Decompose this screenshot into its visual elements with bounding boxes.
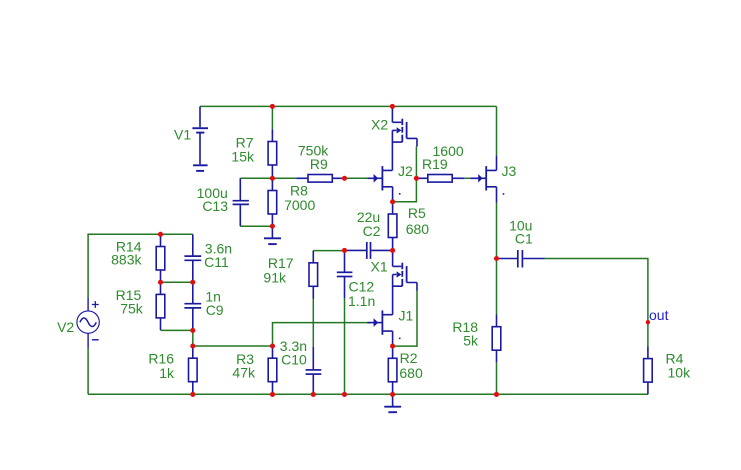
- wire R14 C11 row: [161, 281, 193, 283]
- wire X2 gate down: [415, 147, 417, 179]
- svg-text:C11: C11: [204, 254, 229, 270]
- svg-text:5k: 5k: [463, 332, 479, 348]
- capacitor C13: [233, 178, 249, 226]
- transistor X2: [392, 106, 417, 146]
- node R3 top: [270, 343, 275, 348]
- wire J3 drain feed: [496, 106, 498, 155]
- capacitor C9: [184, 282, 201, 330]
- node out: [646, 320, 650, 324]
- node R8 gnd: [270, 224, 275, 229]
- svg-text:883k: 883k: [111, 252, 142, 268]
- wire R9 left: [272, 177, 296, 179]
- wire J3 source down: [496, 203, 498, 315]
- capacitor C1: [497, 250, 545, 268]
- svg-text:C2: C2: [363, 223, 381, 239]
- svg-text:75k: 75k: [120, 301, 144, 317]
- svg-text:10k: 10k: [668, 365, 692, 381]
- node R7/R8/R9: [270, 176, 275, 181]
- svg-text:91k: 91k: [263, 269, 287, 285]
- capacitor C10: [306, 347, 322, 394]
- svg-text:out: out: [649, 307, 669, 323]
- wire J1 gate: [273, 323, 371, 346]
- wire V2 bottom: [87, 348, 89, 394]
- node C11/C9: [190, 280, 195, 285]
- svg-text:R9: R9: [310, 156, 328, 172]
- wire R16 R3 row: [193, 345, 273, 347]
- node J1 source/R2: [390, 344, 395, 349]
- node rail C10: [311, 392, 316, 397]
- node rail R2/gnd: [390, 392, 395, 397]
- transistor J3: [470, 155, 496, 202]
- node rail C12: [342, 392, 347, 397]
- svg-text:J1: J1: [399, 308, 414, 324]
- svg-text:R2: R2: [400, 350, 418, 366]
- node V2/R14: [158, 232, 163, 237]
- svg-text:J3: J3: [502, 163, 517, 179]
- svg-text:47k: 47k: [232, 364, 256, 380]
- svg-text:V1: V1: [174, 127, 191, 143]
- svg-text:15k: 15k: [231, 149, 255, 165]
- voltage source V2: [77, 298, 99, 349]
- resistor R7: [268, 129, 277, 177]
- resistor R16: [189, 346, 198, 394]
- node R19/X2 gate: [414, 176, 419, 181]
- svg-text:680: 680: [406, 221, 430, 237]
- capacitor C12: [337, 250, 353, 298]
- wire R15 bottom link: [161, 329, 193, 331]
- resistor R14: [156, 234, 165, 282]
- ground at R2: [384, 394, 401, 412]
- node rail R18: [494, 392, 499, 397]
- resistor R18: [492, 315, 501, 363]
- wire C9 node down: [192, 330, 194, 346]
- node rail R16: [190, 392, 195, 397]
- resistor R3: [268, 346, 277, 394]
- wire C13 bottom: [240, 225, 272, 227]
- svg-text:X1: X1: [371, 259, 388, 275]
- pin mark J2: [399, 193, 401, 195]
- resistor R19: [416, 175, 464, 183]
- voltage source V1: [192, 106, 208, 170]
- svg-text:R5: R5: [408, 205, 426, 221]
- node R15/C9: [190, 328, 195, 333]
- resistor R2: [388, 346, 397, 394]
- resistor R17: [309, 251, 318, 299]
- wire C12 bottom: [344, 298, 346, 394]
- resistor R8: [268, 178, 277, 226]
- svg-text:J2: J2: [398, 163, 413, 179]
- svg-text:R16: R16: [148, 350, 174, 366]
- svg-text:C10: C10: [281, 352, 307, 368]
- svg-text:X2: X2: [371, 117, 388, 133]
- wire bottom rail: [88, 393, 648, 395]
- resistor R5: [388, 202, 397, 250]
- wire top rail V+: [200, 105, 497, 107]
- node R9/J2 gate: [342, 176, 347, 181]
- svg-text:V2: V2: [57, 319, 74, 335]
- transistor J2: [367, 142, 392, 202]
- pin mark J1: [399, 338, 401, 340]
- wire V2 top to C11: [88, 234, 193, 297]
- node R14/R15: [158, 280, 163, 285]
- svg-text:7000: 7000: [284, 197, 315, 213]
- node V+ / X2: [390, 104, 395, 109]
- wire J2 gate: [345, 177, 368, 179]
- resistor R9: [296, 175, 344, 183]
- svg-text:R19: R19: [422, 156, 448, 172]
- capacitor C11: [184, 234, 201, 282]
- svg-text:C13: C13: [202, 198, 228, 214]
- wire R7 top: [271, 106, 273, 129]
- node R16 top: [190, 343, 195, 348]
- wire C1 right to out column: [545, 259, 648, 347]
- node J2 source/R5: [390, 199, 395, 204]
- svg-text:680: 680: [399, 365, 423, 381]
- resistor R4: [644, 346, 653, 394]
- wire X1 gate down: [393, 291, 417, 347]
- transistor X1: [393, 250, 417, 290]
- svg-text:C9: C9: [206, 302, 224, 318]
- svg-text:C1: C1: [515, 231, 533, 247]
- node C2 right: [390, 248, 395, 253]
- wire node J2 source to R19 node: [393, 178, 417, 202]
- svg-text:1.1n: 1.1n: [348, 293, 375, 309]
- transistor J1: [367, 286, 392, 346]
- node C2 left: [342, 248, 347, 253]
- resistor R15: [156, 282, 165, 330]
- wire R19 right: [464, 177, 470, 179]
- wire R18 bottom: [496, 363, 498, 395]
- node V+ / R7: [270, 104, 275, 109]
- node rail R3: [270, 392, 275, 397]
- pin dots (source markers): [399, 193, 504, 339]
- pin mark J3: [503, 193, 505, 195]
- ground at R8: [264, 226, 281, 244]
- svg-text:1k: 1k: [159, 365, 175, 381]
- wire R17 top link: [313, 250, 344, 252]
- wire C13 top link: [240, 177, 272, 179]
- node C1 left: [494, 256, 499, 261]
- wire R17 to C10: [312, 299, 314, 348]
- capacitor C2: [345, 242, 393, 259]
